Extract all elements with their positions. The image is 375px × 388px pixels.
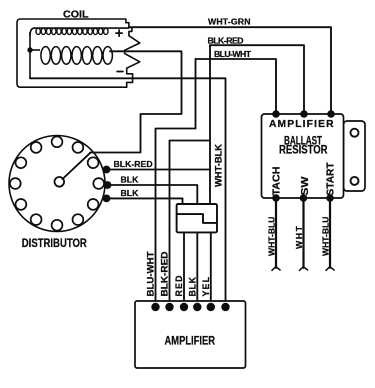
- svg-text:WHT: WHT: [294, 225, 304, 249]
- svg-text:BLK-RED: BLK-RED: [160, 252, 170, 297]
- svg-text:RESISTOR: RESISTOR: [279, 143, 328, 157]
- svg-text:BLU-WHT: BLU-WHT: [146, 251, 156, 297]
- svg-text:WHT-BLU: WHT-BLU: [321, 217, 331, 257]
- svg-text:TACH: TACH: [270, 167, 282, 196]
- svg-text:BLK: BLK: [187, 276, 197, 296]
- svg-text:AMPLIFIER: AMPLIFIER: [165, 333, 216, 347]
- svg-text:WHT-BLK: WHT-BLK: [214, 143, 224, 187]
- svg-text:BLK-RED: BLK-RED: [114, 159, 153, 169]
- svg-text:WHT-GRN: WHT-GRN: [208, 16, 251, 26]
- svg-text:SW: SW: [299, 176, 311, 195]
- svg-text:WHT-BLU: WHT-BLU: [267, 217, 277, 257]
- svg-text:START: START: [324, 162, 336, 196]
- svg-text:YEL: YEL: [201, 276, 211, 296]
- svg-text:RED: RED: [174, 276, 184, 297]
- svg-text:AMPLIFIER: AMPLIFIER: [269, 119, 334, 130]
- svg-text:COIL: COIL: [63, 9, 89, 20]
- svg-text:DISTRIBUTOR: DISTRIBUTOR: [22, 238, 88, 250]
- svg-text:BLU-WHT: BLU-WHT: [214, 49, 252, 59]
- svg-text:BLK: BLK: [121, 188, 140, 198]
- svg-text:BLK-RED: BLK-RED: [208, 36, 244, 46]
- svg-text:BLK: BLK: [121, 174, 140, 184]
